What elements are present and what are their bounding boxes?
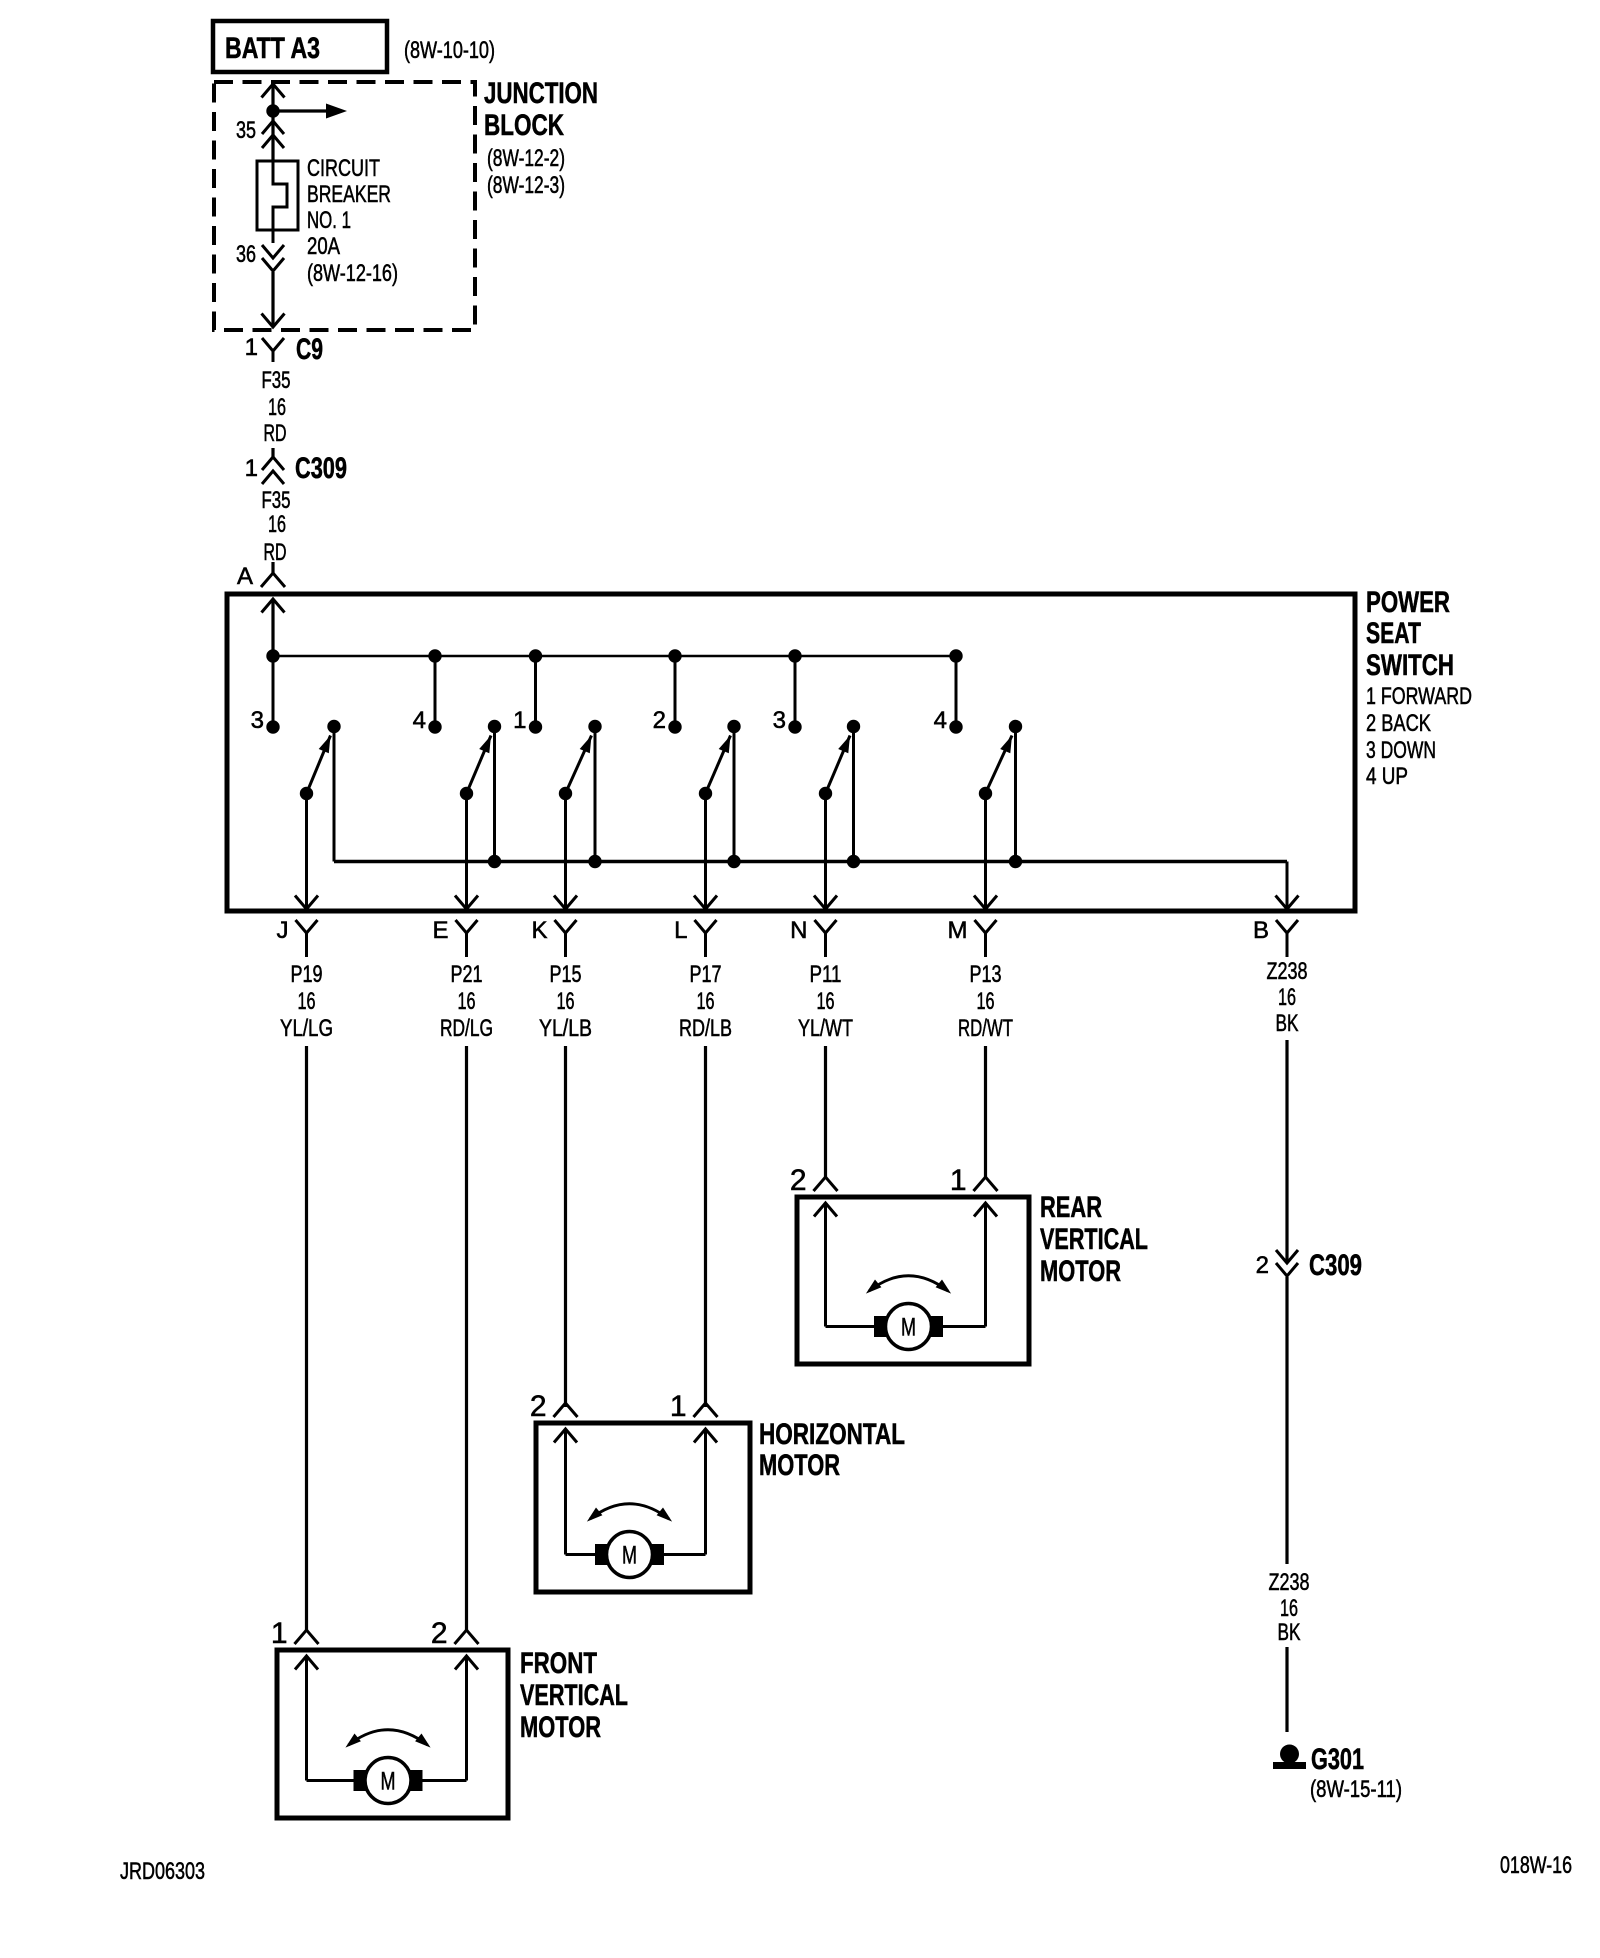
svg-text:(8W-10-10): (8W-10-10) — [404, 37, 495, 64]
svg-text:Z238: Z238 — [1267, 958, 1308, 985]
svg-text:1: 1 — [670, 1390, 687, 1423]
svg-text:4: 4 — [413, 707, 426, 734]
svg-text:16: 16 — [557, 988, 575, 1015]
svg-text:018W-16: 018W-16 — [1500, 1852, 1572, 1879]
svg-text:3 DOWN: 3 DOWN — [1366, 737, 1436, 764]
svg-text:MOTOR: MOTOR — [1040, 1255, 1121, 1288]
svg-text:C9: C9 — [296, 333, 323, 366]
svg-text:P21: P21 — [451, 961, 483, 988]
svg-text:4 UP: 4 UP — [1366, 763, 1408, 790]
svg-text:VERTICAL: VERTICAL — [520, 1679, 628, 1712]
svg-text:C309: C309 — [295, 452, 347, 485]
svg-text:M: M — [901, 1314, 916, 1342]
svg-text:2: 2 — [530, 1390, 547, 1423]
svg-text:1 FORWARD: 1 FORWARD — [1366, 683, 1472, 710]
svg-text:1: 1 — [245, 334, 258, 361]
svg-text:HORIZONTAL: HORIZONTAL — [759, 1418, 905, 1451]
svg-text:P19: P19 — [291, 961, 323, 988]
svg-text:M: M — [381, 1768, 396, 1796]
svg-text:FRONT: FRONT — [520, 1647, 597, 1680]
svg-text:POWER: POWER — [1366, 586, 1450, 619]
svg-text:E: E — [432, 917, 448, 944]
svg-text:YL/LG: YL/LG — [280, 1015, 333, 1042]
svg-text:35: 35 — [236, 117, 256, 144]
svg-text:3: 3 — [251, 707, 264, 734]
svg-text:2 BACK: 2 BACK — [1366, 710, 1431, 737]
svg-text:B: B — [1253, 917, 1269, 944]
svg-text:VERTICAL: VERTICAL — [1040, 1223, 1148, 1256]
svg-text:16: 16 — [977, 988, 995, 1015]
svg-text:F35: F35 — [262, 367, 291, 394]
svg-text:C309: C309 — [1309, 1249, 1362, 1282]
svg-text:J: J — [277, 917, 289, 944]
svg-text:1: 1 — [513, 707, 526, 734]
svg-text:NO. 1: NO. 1 — [307, 207, 351, 234]
svg-text:MOTOR: MOTOR — [759, 1449, 840, 1482]
svg-text:BLOCK: BLOCK — [484, 109, 564, 142]
svg-text:16: 16 — [817, 988, 835, 1015]
svg-text:RD/LG: RD/LG — [440, 1015, 493, 1042]
svg-text:CIRCUIT: CIRCUIT — [307, 155, 380, 182]
svg-text:Z238: Z238 — [1269, 1569, 1310, 1596]
svg-text:P11: P11 — [810, 961, 842, 988]
svg-text:SEAT: SEAT — [1366, 617, 1421, 650]
svg-text:2: 2 — [431, 1617, 448, 1650]
svg-text:(8W-15-11): (8W-15-11) — [1310, 1776, 1402, 1803]
svg-text:JRD06303: JRD06303 — [120, 1858, 205, 1885]
svg-text:JUNCTION: JUNCTION — [484, 77, 598, 110]
svg-text:YL/WT: YL/WT — [798, 1015, 853, 1042]
svg-text:2: 2 — [1256, 1252, 1269, 1279]
svg-text:16: 16 — [1278, 984, 1296, 1011]
svg-text:2: 2 — [790, 1164, 807, 1197]
svg-text:L: L — [674, 917, 687, 944]
svg-text:16: 16 — [697, 988, 715, 1015]
svg-text:N: N — [790, 917, 807, 944]
svg-text:BK: BK — [1276, 1010, 1299, 1037]
svg-text:3: 3 — [773, 707, 786, 734]
svg-text:M: M — [622, 1542, 637, 1570]
svg-text:F35: F35 — [262, 487, 291, 514]
svg-text:P15: P15 — [550, 961, 582, 988]
svg-text:RD/WT: RD/WT — [958, 1015, 1013, 1042]
svg-text:BATT A3: BATT A3 — [225, 32, 320, 65]
svg-text:1: 1 — [950, 1164, 967, 1197]
svg-text:(8W-12-2): (8W-12-2) — [487, 145, 565, 172]
svg-text:A: A — [237, 563, 253, 590]
svg-text:BK: BK — [1278, 1619, 1301, 1646]
svg-text:36: 36 — [236, 241, 256, 268]
svg-text:M: M — [948, 917, 968, 944]
svg-text:1: 1 — [245, 455, 258, 482]
svg-text:16: 16 — [1280, 1595, 1298, 1622]
svg-text:YL/LB: YL/LB — [539, 1015, 592, 1042]
svg-text:16: 16 — [458, 988, 476, 1015]
svg-text:SWITCH: SWITCH — [1366, 649, 1454, 682]
svg-text:16: 16 — [268, 511, 286, 538]
svg-text:16: 16 — [298, 988, 316, 1015]
svg-text:REAR: REAR — [1040, 1191, 1102, 1224]
svg-text:20A: 20A — [307, 233, 340, 260]
svg-text:4: 4 — [934, 707, 947, 734]
svg-text:16: 16 — [268, 394, 286, 421]
svg-text:2: 2 — [653, 707, 666, 734]
svg-text:P17: P17 — [690, 961, 722, 988]
svg-text:RD: RD — [264, 420, 287, 447]
svg-text:(8W-12-16): (8W-12-16) — [307, 260, 398, 287]
svg-text:RD: RD — [264, 539, 287, 566]
svg-text:1: 1 — [271, 1617, 288, 1650]
svg-text:(8W-12-3): (8W-12-3) — [487, 172, 565, 199]
svg-text:K: K — [531, 917, 547, 944]
svg-text:MOTOR: MOTOR — [520, 1711, 601, 1744]
svg-text:RD/LB: RD/LB — [679, 1015, 732, 1042]
svg-text:G301: G301 — [1311, 1743, 1364, 1776]
svg-text:BREAKER: BREAKER — [307, 181, 391, 208]
svg-text:P13: P13 — [970, 961, 1002, 988]
